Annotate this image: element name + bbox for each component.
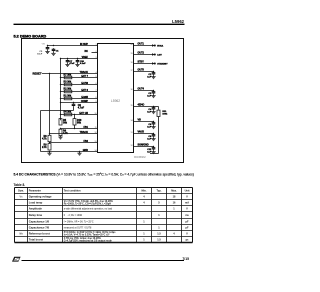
- svg-text:R4 36k: R4 36k: [64, 111, 72, 114]
- svg-text:R7 36k: R7 36k: [64, 74, 72, 77]
- svg-text:5: 5: [96, 76, 97, 78]
- svg-text:Reference boost: Reference boost: [29, 231, 50, 235]
- resistor R6: [59, 129, 62, 135]
- svg-text:17: 17: [130, 70, 132, 72]
- ground R6: [58, 135, 62, 139]
- schematic frame: [22, 39, 184, 163]
- capacitor C6: [152, 122, 156, 126]
- resistor R7: [64, 76, 72, 79]
- wire VAUX: [134, 133, 154, 135]
- svg-text:NC: NC: [85, 50, 89, 53]
- capacitor C11: [152, 147, 156, 151]
- svg-text:R2 36k: R2 36k: [64, 88, 72, 91]
- wire R11 bottom: [158, 117, 160, 154]
- svg-text:RL=100Ω, Tj=25°C, C​O=4.7µF/25: RL=100Ω, Tj=25°C, C​O=4.7µF/25V, L=33µH: [64, 203, 112, 206]
- resistor R9: [48, 144, 51, 150]
- svg-text:36k: 36k: [63, 121, 68, 124]
- svg-text:EXT 1/5: EXT 1/5: [79, 112, 88, 115]
- wire STBY: [134, 63, 154, 65]
- svg-text:EA7/6: EA7/6: [81, 82, 88, 85]
- svg-text:EXT 7: EXT 7: [81, 75, 88, 78]
- svg-text:1: 1: [96, 44, 97, 46]
- svg-text:1: 1: [143, 220, 145, 223]
- svg-text:D01IN5962: D01IN5962: [134, 157, 146, 159]
- svg-text:1uF: 1uF: [147, 139, 152, 141]
- wire R11 top: [154, 106, 159, 108]
- wire ladder row EXT7: [61, 77, 98, 79]
- wire ladder row EXT6: [61, 84, 98, 86]
- svg-text:f = 1MHz, V​R = 0V, T​j = 25°C: f = 1MHz, V​R = 0V, T​j = 25°C: [64, 221, 94, 223]
- svg-text:1uF: 1uF: [147, 96, 152, 98]
- svg-text:SGN/GND: SGN/GND: [138, 144, 149, 147]
- wire ladder row EXT3: [61, 98, 98, 100]
- resistor R4: [64, 113, 72, 116]
- svg-text:Min.: Min.: [142, 189, 147, 192]
- svg-text:3: 3: [96, 57, 97, 59]
- wire ground bus: [150, 153, 159, 155]
- svg-text:L5962: L5962: [172, 19, 185, 24]
- svg-text:OUT5: OUT5: [138, 69, 145, 72]
- svg-text:4: 4: [143, 195, 145, 198]
- ground IC: [77, 152, 81, 156]
- capacitor C8: [152, 134, 156, 138]
- svg-text:1.5: 1.5: [157, 238, 161, 241]
- svg-text:Amplitude: Amplitude: [29, 206, 43, 210]
- svg-text:VAUX: VAUX: [138, 131, 145, 134]
- svg-text:15: 15: [130, 105, 132, 107]
- svg-text:1uF: 1uF: [147, 127, 152, 129]
- svg-text:Test condition: Test condition: [64, 189, 81, 192]
- wire FB2 row: [50, 142, 98, 144]
- svg-text:IN SUP: IN SUP: [80, 43, 88, 46]
- capacitor C1: [52, 48, 56, 52]
- wire OUT1: [134, 45, 154, 47]
- svg-text:Delay time: Delay time: [29, 213, 43, 217]
- svg-text:18: 18: [130, 62, 132, 64]
- svg-text:R3 36k: R3 36k: [64, 81, 72, 84]
- wire VREF row: [61, 58, 98, 60]
- svg-text:Capacitance 1/8: Capacitance 1/8: [29, 219, 50, 223]
- capacitor C10: [76, 59, 80, 63]
- svg-text:a-side differential adjustment: a-side differential adjustment operation…: [64, 207, 113, 210]
- node OUT2 terminal: [154, 53, 156, 55]
- svg-text:OUT1: OUT1: [138, 43, 145, 46]
- svg-text:3.3V: 3.3V: [157, 54, 162, 56]
- svg-text:16: 16: [173, 201, 176, 204]
- header rule: [14, 23, 185, 25]
- node OUT1 terminal: [154, 44, 156, 46]
- svg-text:Vrb: Vrb: [19, 232, 23, 235]
- svg-text:VB: VB: [138, 119, 142, 122]
- ground C6: [151, 125, 155, 129]
- svg-text:0.1uF: 0.1uF: [80, 63, 86, 65]
- wire SGN/GND: [134, 146, 154, 148]
- svg-text:TBACK: TBACK: [80, 131, 89, 134]
- svg-text:9: 9: [96, 101, 97, 103]
- svg-text:Sym.: Sym.: [18, 189, 24, 192]
- svg-text:measured at OUT7 / OUT8: measured at OUT7 / OUT8: [64, 226, 92, 229]
- svg-text:OUT2: OUT2: [138, 52, 145, 55]
- svg-text:VIN: VIN: [42, 43, 46, 45]
- svg-text:1: 1: [158, 214, 160, 217]
- wire ladder row EXT5: [61, 91, 98, 93]
- svg-text:Vs: Vs: [20, 195, 24, 198]
- wire COMP row: [61, 102, 98, 104]
- svg-text:1: 1: [143, 238, 145, 241]
- resistor R10: [73, 119, 76, 125]
- svg-text:Max.: Max.: [171, 189, 177, 192]
- svg-text:100k: 100k: [162, 114, 168, 116]
- svg-text:5V/1A: 5V/1A: [157, 44, 163, 47]
- svg-text:OUT4: OUT4: [138, 88, 145, 91]
- wire R10 top: [74, 115, 76, 119]
- svg-text:FB2: FB2: [83, 140, 88, 143]
- wire bus vertical: [60, 59, 62, 121]
- svg-text:7: 7: [96, 90, 97, 92]
- ground C5: [45, 50, 49, 54]
- wire RESET: [42, 73, 98, 75]
- svg-text:5.2 DEMO BOARD: 5.2 DEMO BOARD: [14, 34, 47, 38]
- ground C11: [151, 150, 155, 154]
- ground C8: [151, 137, 155, 141]
- svg-text:20: 20: [130, 44, 132, 46]
- svg-text:5.4 DC CHARACTERISTICS (VI = 1: 5.4 DC CHARACTERISTICS (VI = 10.8V to 15…: [14, 173, 194, 177]
- svg-text:0 → 2; R​L = 100Ω: 0 → 2; R​L = 100Ω: [64, 215, 83, 217]
- wire OUT4: [134, 90, 154, 92]
- capacitor C5: [46, 46, 50, 50]
- svg-text:10uF: 10uF: [37, 54, 43, 56]
- svg-text:Unit: Unit: [185, 189, 190, 192]
- capacitor C4: [152, 107, 156, 111]
- svg-text:19: 19: [130, 53, 132, 55]
- svg-text:Total boost: Total boost: [29, 237, 43, 241]
- capacitor C7: [66, 59, 70, 63]
- svg-text:4.7uF: 4.7uF: [78, 106, 85, 109]
- wire VIN to pin IN: [47, 45, 98, 47]
- svg-text:EA6/5: EA6/5: [81, 96, 88, 99]
- wire junction row: [61, 128, 98, 130]
- svg-text:47nF: 47nF: [69, 62, 75, 65]
- wire row EXT1: [61, 114, 98, 116]
- wire OUT2: [134, 54, 154, 56]
- svg-text:6: 6: [96, 83, 97, 85]
- wire bus A vertical: [49, 74, 51, 136]
- svg-text:µs: µs: [186, 238, 189, 241]
- svg-text:11: 11: [95, 127, 97, 129]
- svg-text:TRACK: TRACK: [80, 71, 89, 74]
- svg-text:Capacitance 7/8: Capacitance 7/8: [29, 225, 50, 229]
- svg-text:C=4.7µF/25V; measured at 1/8 o: C=4.7µF/25V; measured at 1/8 output node: [64, 240, 113, 243]
- resistor R11: [157, 110, 160, 116]
- svg-text:mA: mA: [185, 201, 189, 204]
- svg-text:IO=0.5A; V=4.75 to 5.25V; T​am: IO=0.5A; V=4.75 to 5.25V; T​amb=25°C ±5°: [64, 234, 110, 237]
- svg-text:STANDBY: STANDBY: [157, 62, 168, 65]
- svg-text:4: 4: [143, 201, 145, 204]
- ground R9: [47, 152, 51, 156]
- svg-text:L5962: L5962: [111, 99, 120, 103]
- op-amp U1 L5962: [98, 44, 134, 153]
- resistor R3: [64, 83, 72, 86]
- svg-text:Parameter: Parameter: [29, 189, 41, 192]
- capacitor C2: [152, 72, 156, 76]
- svg-text:pF: pF: [185, 220, 189, 223]
- svg-text:V: V: [186, 195, 188, 198]
- svg-text:1: 1: [173, 207, 175, 210]
- svg-text:COMP: COMP: [81, 100, 89, 103]
- table grid: [15, 187, 193, 189]
- svg-text:5: 5: [158, 201, 160, 204]
- svg-text:EXT 6: EXT 6: [81, 89, 88, 92]
- wire pin2 stub: [92, 52, 98, 54]
- wire VB: [134, 121, 154, 123]
- svg-text:8: 8: [96, 97, 97, 99]
- wire R10 bottom: [74, 125, 76, 129]
- svg-text:13: 13: [94, 141, 96, 143]
- svg-text:1.5: 1.5: [157, 232, 161, 235]
- footer rule: [22, 260, 185, 262]
- svg-text:RESET: RESET: [33, 72, 42, 76]
- resistor R5: [59, 119, 62, 125]
- ground C2: [151, 75, 155, 79]
- svg-text:4: 4: [173, 232, 175, 235]
- svg-text:V: V: [186, 232, 188, 235]
- svg-text:4E/4O: 4E/4O: [138, 104, 145, 107]
- svg-text:1: 1: [143, 232, 145, 235]
- wire 4E/4O: [134, 106, 154, 108]
- svg-text:12: 12: [94, 132, 96, 134]
- ground C1: [51, 52, 55, 56]
- svg-text:1: 1: [158, 226, 160, 229]
- svg-text:FB1: FB1: [83, 126, 88, 129]
- svg-text:STBY: STBY: [138, 61, 145, 64]
- ST logo: [12, 257, 21, 262]
- ground C10: [75, 63, 79, 67]
- svg-text:1uF: 1uF: [147, 77, 152, 79]
- svg-text:Table 8.: Table 8.: [14, 183, 26, 187]
- svg-text:12: 12: [130, 145, 132, 147]
- wire C9 return: [41, 110, 74, 112]
- svg-text:1uF: 1uF: [147, 112, 152, 114]
- svg-text:18: 18: [173, 195, 176, 198]
- svg-text:VREF: VREF: [82, 56, 89, 59]
- node STBY terminal: [154, 62, 156, 64]
- ground C4: [151, 110, 155, 114]
- resistor R8: [48, 135, 51, 141]
- wire TBACK row: [50, 133, 98, 135]
- resistor R2: [64, 90, 72, 93]
- svg-text:GND: GND: [83, 149, 89, 152]
- wire bus B vertical: [40, 111, 42, 152]
- ground C3: [151, 94, 155, 98]
- capacitor C3: [152, 91, 156, 95]
- svg-text:Operating voltage: Operating voltage: [29, 194, 52, 198]
- svg-text:4.7k: 4.7k: [42, 137, 47, 140]
- svg-text:Load temp: Load temp: [29, 200, 43, 204]
- wire GND row: [41, 151, 98, 153]
- wire OUT5: [134, 71, 154, 73]
- svg-text:pF: pF: [185, 226, 189, 229]
- ground C7: [65, 63, 69, 67]
- svg-text:2.7k: 2.7k: [42, 146, 47, 149]
- svg-text:Typ.: Typ.: [157, 189, 162, 192]
- svg-text:7/15: 7/15: [182, 257, 189, 261]
- svg-text:56k: 56k: [77, 121, 82, 124]
- svg-text:16: 16: [130, 89, 132, 91]
- capacitor C9: [72, 103, 76, 107]
- svg-text:C1: C1: [56, 50, 60, 52]
- svg-text:R1 36k: R1 36k: [64, 95, 72, 98]
- svg-text:10: 10: [94, 113, 96, 115]
- svg-text:V: V: [186, 207, 188, 210]
- svg-text:13: 13: [130, 132, 132, 134]
- svg-text:ms: ms: [185, 214, 189, 217]
- resistor R1: [64, 97, 72, 100]
